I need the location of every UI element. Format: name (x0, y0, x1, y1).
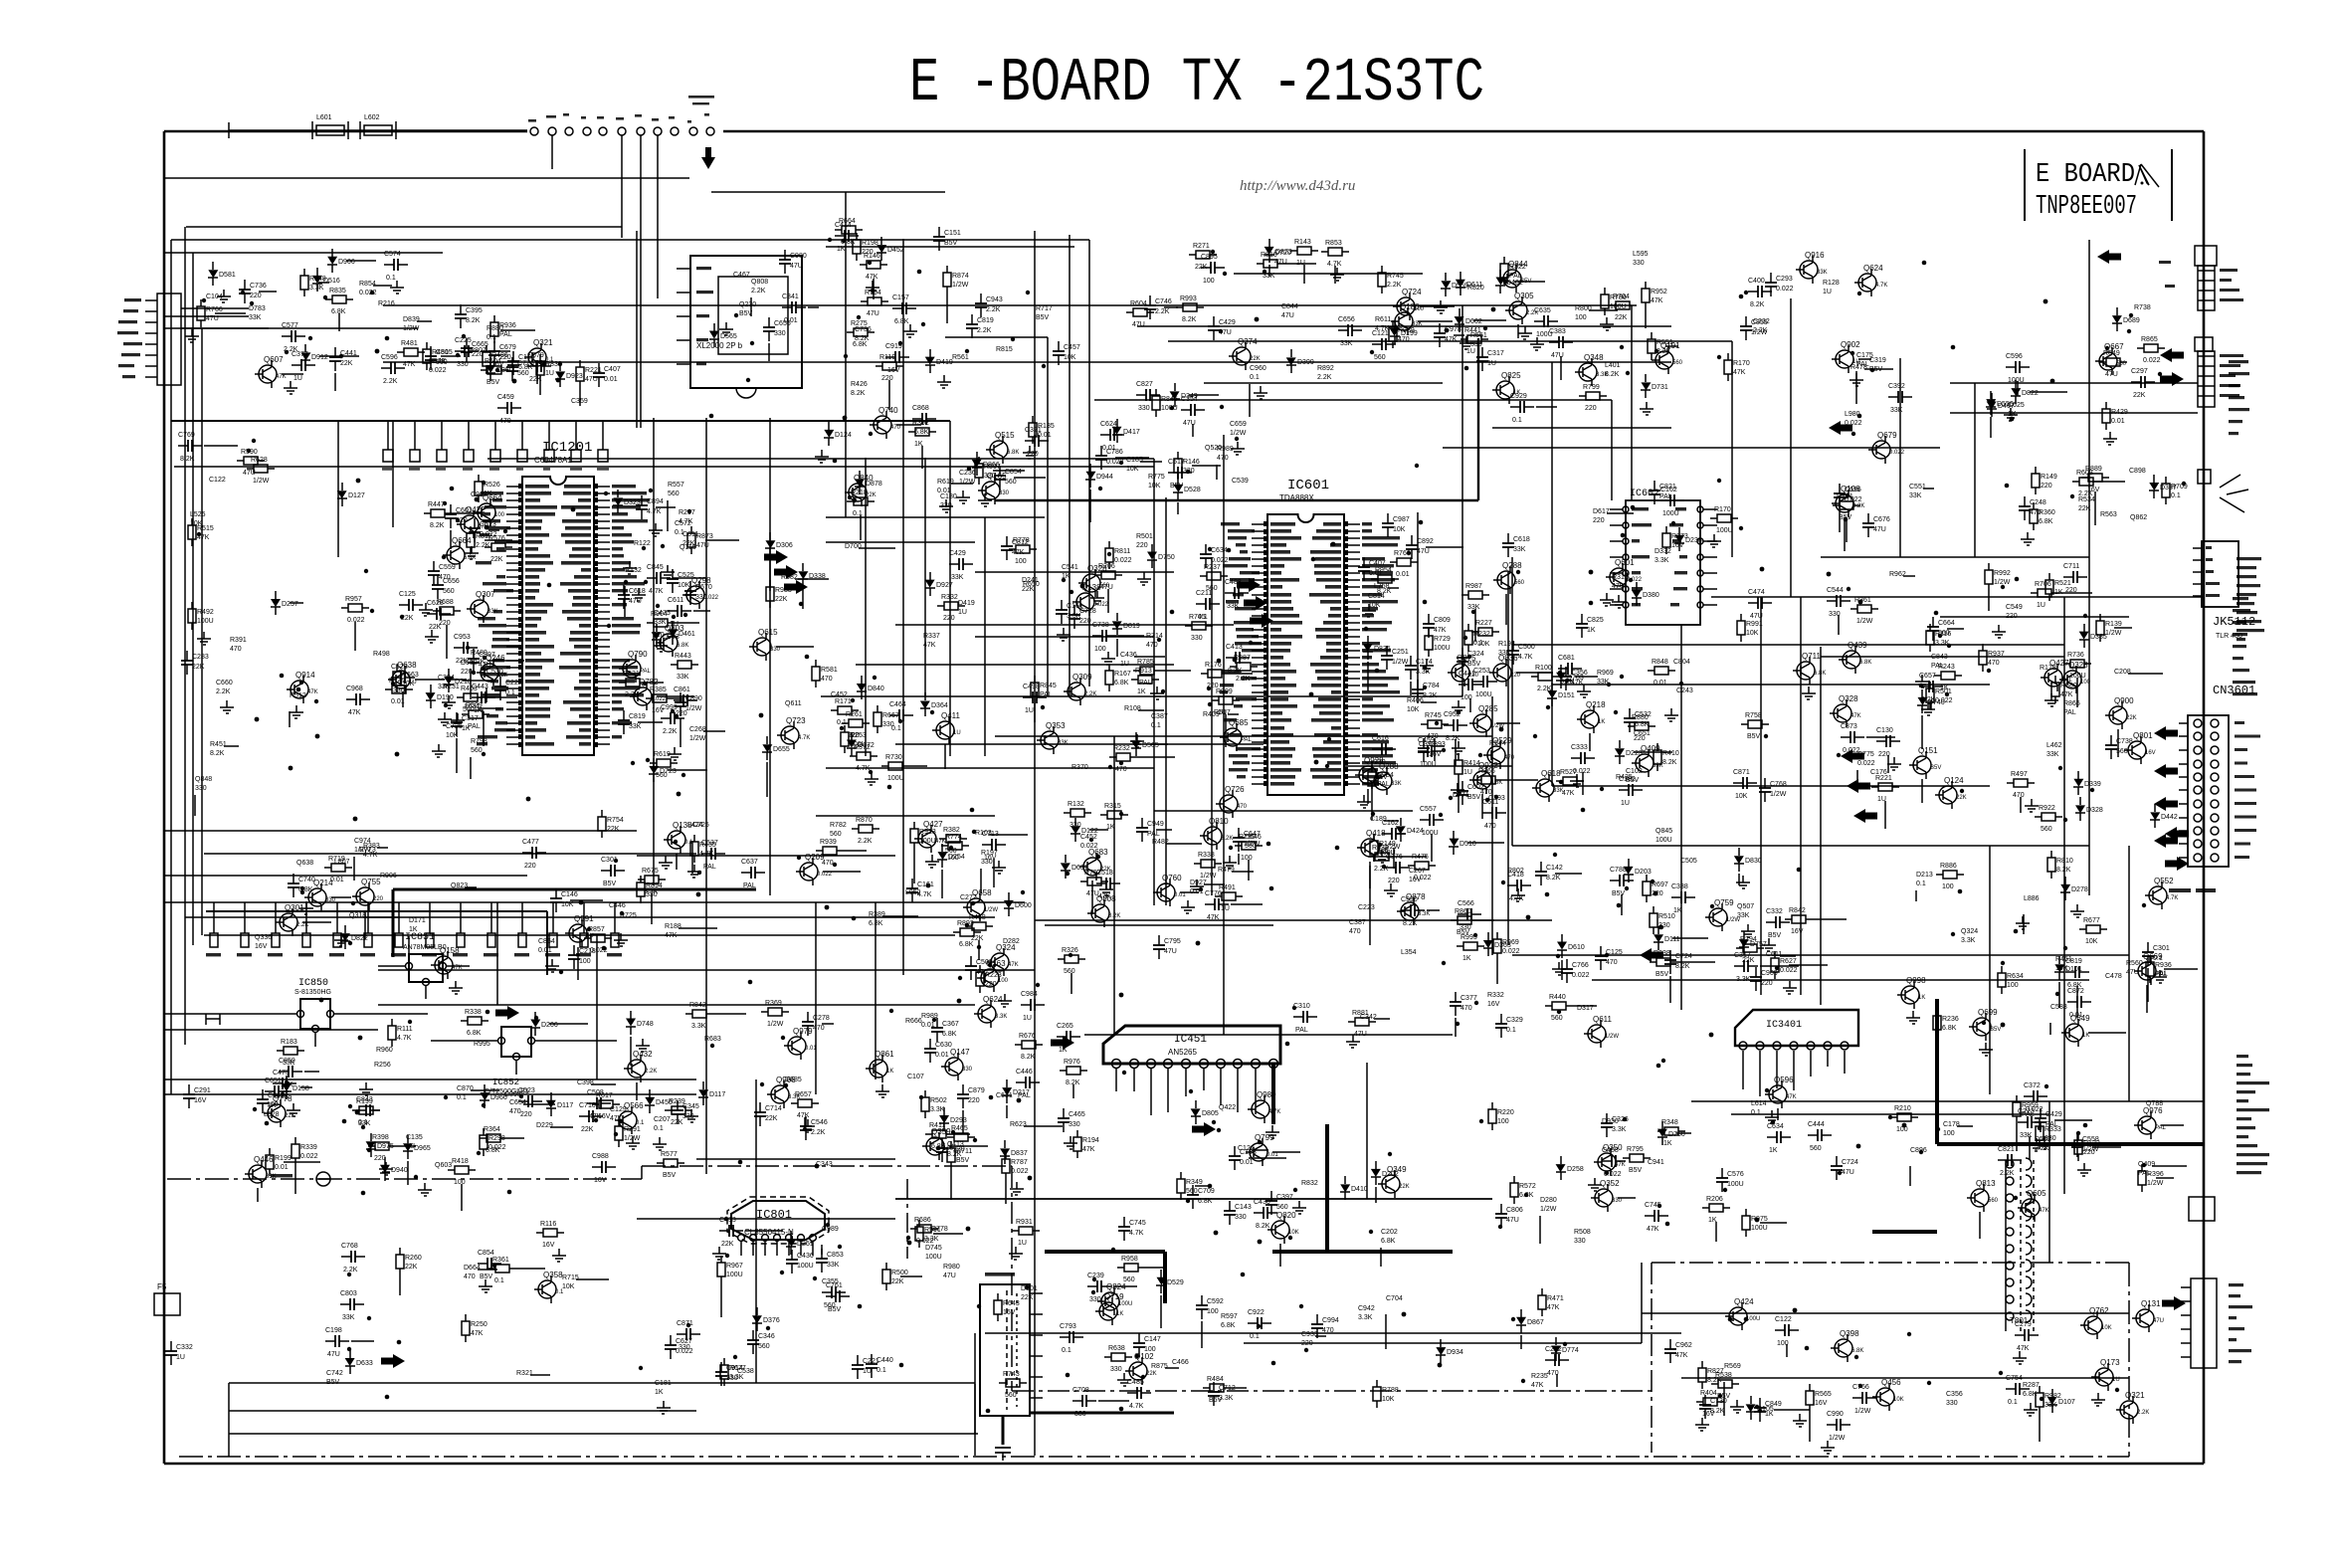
svg-text:C864: C864 (538, 938, 555, 945)
svg-text:D229: D229 (536, 1122, 553, 1129)
capacitor C746 (1096, 882, 1106, 884)
capacitor C651 (497, 407, 507, 409)
capacitor C175 (1168, 472, 1178, 474)
junction (475, 497, 480, 502)
wire (1458, 781, 1460, 813)
wire (171, 420, 950, 422)
resistor R862 (368, 1145, 375, 1147)
capacitor C758 (1507, 533, 1509, 543)
diode D902 (1560, 1156, 1562, 1164)
junction (339, 354, 343, 358)
wire (2156, 1177, 2174, 1179)
svg-text:100: 100 (2007, 982, 2019, 989)
svg-text:3.3K: 3.3K (1612, 1126, 1627, 1133)
capacitor C524 (282, 335, 292, 337)
junction (395, 752, 400, 757)
svg-text:C400: C400 (1748, 278, 1765, 285)
svg-text:0.022: 0.022 (429, 367, 447, 374)
wire (1887, 755, 1889, 773)
transistor Q515 (990, 441, 1008, 459)
capacitor C885 (573, 945, 575, 955)
resistor R284 (1451, 919, 1458, 921)
diode D884 (1738, 848, 1740, 856)
svg-text:R406: R406 (1407, 697, 1424, 704)
svg-text:R271: R271 (1193, 243, 1210, 250)
svg-text:Q755: Q755 (361, 878, 381, 886)
svg-text:C708: C708 (1072, 1387, 1089, 1394)
junction (748, 980, 753, 985)
svg-text:R361: R361 (1854, 597, 1871, 604)
svg-text:R287: R287 (2023, 1382, 2040, 1389)
junction (1589, 570, 1594, 575)
wire (1621, 894, 1623, 915)
transistor Q411 (936, 721, 954, 739)
svg-text:C974: C974 (354, 838, 371, 845)
chassis dash-dot line (1651, 1263, 1653, 1453)
diode D340 (1089, 464, 1091, 472)
svg-text:22K: 22K (866, 492, 876, 498)
ground (424, 1183, 426, 1190)
svg-text:Q861: Q861 (875, 1050, 894, 1059)
resistor R568 (671, 664, 678, 666)
pin 41 (594, 729, 610, 731)
wire (1140, 461, 1162, 463)
transistor Q124 (1939, 786, 1957, 804)
IC IC601 (1267, 514, 1344, 795)
resistor R347 (488, 1268, 495, 1270)
svg-text:R287: R287 (1234, 655, 1251, 662)
svg-text:560: 560 (1005, 479, 1017, 486)
transistor Q165 (982, 482, 1000, 499)
capacitor C543 (1482, 812, 1492, 814)
signal arrow (1829, 421, 1852, 435)
pin 40 (1344, 776, 1360, 778)
svg-text:C819: C819 (2065, 958, 2082, 965)
junction (1025, 1285, 1030, 1290)
capacitor C190 (929, 1039, 931, 1049)
fuse F801 (154, 1293, 180, 1315)
wire (888, 380, 890, 410)
wire (1502, 779, 1538, 781)
svg-text:C107: C107 (907, 1074, 924, 1080)
wire (1477, 338, 1479, 500)
svg-text:Q825: Q825 (1501, 371, 1521, 380)
svg-text:R995: R995 (474, 1041, 490, 1048)
svg-text:R188: R188 (665, 923, 681, 930)
pin 33 (1252, 748, 1267, 750)
IC IC2002 (690, 256, 802, 388)
capacitor C414 (949, 563, 959, 565)
resistor R258 (723, 1358, 725, 1365)
pin 1 (1623, 506, 1629, 512)
svg-text:6.8K: 6.8K (853, 341, 868, 348)
svg-text:C161: C161 (917, 882, 934, 888)
pin 32 (1252, 741, 1267, 743)
wire (1618, 1197, 1636, 1199)
wire (933, 1233, 963, 1235)
ground (191, 329, 193, 336)
wire (1334, 266, 1336, 284)
resistor R814 (2016, 1095, 2018, 1102)
junction (1119, 993, 1124, 998)
svg-text:C185: C185 (1126, 457, 1143, 464)
svg-text:R657: R657 (795, 1091, 812, 1098)
wire (383, 304, 1632, 306)
wire (2029, 1136, 2031, 1160)
svg-text:100: 100 (1497, 1118, 1509, 1125)
resistor R350 (1934, 675, 1941, 677)
capacitor C962 (473, 649, 475, 659)
svg-text:PAL: PAL (1377, 781, 1390, 788)
wire (1367, 662, 1369, 691)
wire (1561, 960, 1563, 980)
ground (1827, 1441, 1829, 1448)
wire (1930, 700, 1932, 710)
wire (795, 578, 829, 580)
capacitor C758 (356, 1109, 366, 1111)
pin 41 (1344, 769, 1360, 771)
ground (1016, 1182, 1018, 1189)
connector CN3601 (2188, 715, 2229, 867)
pin 52 (1344, 691, 1360, 693)
pin 72 (1344, 551, 1360, 553)
wire (1669, 976, 1671, 1003)
svg-text:22K: 22K (1742, 957, 1755, 964)
wire (215, 312, 246, 314)
svg-text:PAL: PAL (640, 669, 652, 675)
svg-text:1U: 1U (2037, 602, 2045, 609)
junction (385, 1395, 390, 1400)
wire (487, 660, 524, 662)
svg-text:D190: D190 (437, 694, 454, 701)
wire (1820, 647, 1822, 1005)
capacitor C769 (1141, 818, 1143, 828)
wire (821, 1245, 823, 1255)
diode D520 (1453, 831, 1455, 839)
svg-text:R100: R100 (1535, 665, 1552, 672)
junction (1631, 505, 1636, 510)
junction (1617, 903, 1622, 908)
svg-text:1K: 1K (1940, 685, 1949, 691)
svg-text:0.1: 0.1 (837, 719, 847, 726)
svg-text:Q685: Q685 (1229, 718, 1249, 727)
resistor stub row (387, 421, 389, 450)
transistor Q605 (2022, 1199, 2040, 1217)
diode D296 (341, 483, 343, 490)
wire (1154, 810, 1413, 812)
svg-text:R677: R677 (2083, 917, 2100, 924)
pin 7 (1841, 1042, 1849, 1050)
svg-text:C711: C711 (2063, 563, 2079, 570)
svg-text:22K: 22K (529, 376, 542, 383)
resistor R700 (657, 1162, 664, 1164)
wire (1417, 512, 1419, 696)
capacitor C192 (1770, 273, 1772, 283)
junction (1717, 479, 1721, 483)
ground (663, 1401, 665, 1408)
svg-text:100: 100 (1094, 646, 1106, 653)
junction (1621, 533, 1626, 538)
diode D788 (1151, 544, 1153, 552)
wire (1160, 1295, 1162, 1328)
resistor R895 (1428, 629, 1430, 636)
wire (1156, 829, 1172, 831)
svg-text:47K: 47K (2017, 1345, 2030, 1352)
transistor Q321 (528, 348, 546, 366)
junction (289, 766, 293, 771)
wire (703, 730, 725, 732)
svg-text:D923: D923 (566, 373, 583, 380)
transistor Q932 (1473, 771, 1491, 789)
junction (397, 1340, 402, 1345)
wire (1809, 1412, 1811, 1442)
svg-text:PAL: PAL (2063, 709, 2076, 716)
wire (882, 915, 918, 917)
capacitor C325 (450, 504, 452, 514)
svg-text:R774: R774 (945, 834, 962, 841)
capacitor C907 (292, 874, 294, 883)
capacitor C567 (2040, 1108, 2042, 1118)
pin 62 (594, 583, 610, 585)
wire (1134, 656, 1165, 658)
svg-text:10K: 10K (1893, 1397, 1904, 1403)
capacitor C469 (1254, 1212, 1264, 1214)
wire (551, 135, 553, 169)
capacitor C662 (701, 853, 711, 855)
transistor Q352 (1595, 1189, 1613, 1207)
wire (1950, 412, 2198, 414)
wire (2146, 985, 2148, 1013)
capacitor C441 (741, 872, 751, 874)
svg-text:1/2W: 1/2W (952, 282, 969, 289)
diode D483 (1344, 1176, 1346, 1184)
ground (438, 744, 440, 751)
resistor R532 (2033, 502, 2035, 509)
svg-text:2.2K: 2.2K (1317, 374, 1332, 381)
pin 46 (1344, 734, 1360, 736)
wire (941, 870, 943, 898)
svg-text:47U: 47U (1551, 352, 1564, 359)
capacitor C458 (752, 1330, 754, 1340)
diode D194 (1991, 393, 1993, 401)
wire (1789, 964, 1828, 966)
svg-text:D385: D385 (2090, 634, 2107, 641)
pin 22 (506, 632, 522, 634)
svg-text:8.2K: 8.2K (1221, 836, 1233, 842)
wire (1672, 937, 1708, 939)
svg-text:22K: 22K (1022, 586, 1035, 593)
diode D644 (1065, 855, 1067, 863)
svg-text:R389: R389 (869, 911, 885, 918)
wire (1137, 756, 1175, 758)
junction (602, 946, 607, 951)
svg-text:4.7K: 4.7K (649, 588, 664, 595)
svg-text:R952: R952 (1651, 289, 1667, 295)
ground (1458, 741, 1460, 748)
wire (1014, 477, 1046, 479)
pin 69 (594, 534, 610, 536)
junction (1526, 915, 1531, 920)
speaker symbol (2220, 475, 2240, 488)
resistor R998 (720, 1256, 722, 1263)
svg-text:L601: L601 (316, 114, 332, 121)
junction (696, 892, 701, 897)
wire (1899, 358, 1901, 557)
wire (164, 1093, 696, 1095)
svg-text:PAL: PAL (1040, 691, 1053, 698)
pin 23 (506, 639, 522, 641)
wire (170, 240, 172, 1094)
svg-text:R619: R619 (937, 479, 954, 486)
svg-text:47K: 47K (1651, 297, 1663, 304)
IC IC3401 (1735, 1010, 1858, 1046)
capacitor C910 (1386, 646, 1388, 656)
resistor R722 (1929, 682, 1931, 688)
resistor R115 (856, 233, 858, 240)
svg-text:2.2K: 2.2K (811, 1129, 826, 1136)
svg-text:0.022: 0.022 (1935, 697, 1953, 704)
transistor Q875 (1452, 664, 1469, 682)
pin 74 (1344, 537, 1360, 539)
wire (909, 765, 927, 767)
svg-text:R835: R835 (329, 288, 346, 294)
wire (488, 529, 499, 531)
wire (1711, 596, 2204, 598)
wire (282, 373, 303, 375)
wire (637, 855, 895, 857)
wire (769, 558, 771, 591)
svg-text:1/2W: 1/2W (1856, 618, 1873, 625)
pin 10 (1252, 586, 1267, 588)
wire (668, 769, 707, 771)
svg-text:100U: 100U (1420, 761, 1437, 768)
wire (1369, 862, 1371, 888)
resistor R970 (584, 937, 591, 939)
svg-text:C978: C978 (1445, 326, 1461, 333)
wire (1071, 973, 1072, 994)
ground (718, 1247, 720, 1254)
wire (769, 418, 771, 895)
resistor R738 (1471, 631, 1478, 633)
wire (1284, 263, 1316, 265)
pin 43 (1344, 755, 1360, 757)
capacitor C879 (1226, 657, 1236, 659)
svg-text:10K: 10K (678, 582, 690, 589)
svg-text:R766: R766 (206, 306, 223, 313)
svg-text:C879: C879 (968, 1087, 985, 1094)
wire (1520, 1335, 1522, 1349)
svg-text:1/2W: 1/2W (1200, 873, 1217, 880)
svg-text:6.8K: 6.8K (518, 364, 533, 371)
capacitor C260 (1755, 967, 1757, 977)
wire (713, 1013, 746, 1015)
resistor R663 (2077, 1133, 2079, 1140)
svg-text:XL2000 2P b: XL2000 2P b (696, 341, 743, 350)
svg-text:C892: C892 (1417, 538, 1434, 545)
diode D718 (802, 563, 804, 571)
capacitor C888 (587, 1102, 597, 1104)
junction (957, 999, 962, 1004)
wire (229, 1410, 696, 1412)
capacitor C324 (970, 956, 972, 966)
svg-text:1K: 1K (886, 1069, 893, 1075)
capacitor C846 (1671, 896, 1681, 898)
ground (1136, 734, 1138, 741)
resistor R489 (1890, 1116, 1897, 1118)
ground (444, 712, 446, 719)
capacitor C657 (478, 1263, 487, 1265)
resistor R443 (815, 660, 817, 667)
capacitor C406 (1455, 992, 1457, 1002)
capacitor C867 (399, 604, 409, 606)
svg-text:1U: 1U (1221, 905, 1230, 912)
capacitor C830 (1836, 1156, 1838, 1166)
svg-text:Q801: Q801 (2133, 731, 2153, 740)
capacitor C345 (499, 677, 501, 686)
capacitor C767 (1439, 323, 1441, 333)
svg-text:C870: C870 (457, 1085, 474, 1092)
resistor R667 (816, 850, 823, 852)
svg-text:Q411: Q411 (941, 711, 961, 720)
junction (2083, 1123, 2088, 1128)
pin 45 (594, 701, 610, 703)
wire (1195, 1185, 1211, 1187)
capacitor C890 (1100, 434, 1110, 436)
svg-text:R873: R873 (696, 533, 713, 540)
wire (896, 424, 921, 426)
wire (1473, 319, 1506, 321)
capacitor C352 (1759, 1398, 1761, 1408)
resistor R275 (1376, 1380, 1378, 1387)
wire (630, 1037, 632, 1066)
svg-text:Q307: Q307 (476, 590, 495, 599)
transistor Q601 (1610, 568, 1628, 586)
wire (1396, 856, 1427, 858)
diode D464 (859, 471, 861, 479)
svg-text:C844: C844 (1281, 303, 1298, 310)
wire (924, 458, 926, 696)
svg-text:Q131: Q131 (2141, 1299, 2161, 1308)
svg-text:R631: R631 (623, 671, 640, 678)
resistor R415 (1200, 575, 1207, 577)
diode D657 (2079, 797, 2081, 805)
capacitor C141 (1549, 341, 1559, 343)
wire (206, 910, 547, 912)
wire (1094, 399, 1612, 401)
wire (1677, 961, 1715, 963)
svg-text:560: 560 (1064, 968, 1075, 975)
connector P601 pin circles (530, 127, 538, 135)
signal arrow (2160, 348, 2184, 362)
svg-text:R788: R788 (1382, 1387, 1399, 1394)
pin 67 (1344, 586, 1360, 588)
wire (1455, 739, 1457, 766)
wire (2076, 986, 2078, 1018)
test point TP3601 (2198, 470, 2211, 484)
resistor R713 (2007, 782, 2014, 784)
wire (859, 547, 895, 549)
wire (691, 841, 693, 874)
wire (164, 1078, 696, 1080)
junction (1491, 307, 1496, 312)
wire (470, 757, 472, 779)
svg-text:1/2W: 1/2W (1244, 841, 1261, 848)
capacitor C435 (1401, 909, 1411, 911)
svg-text:2.2K: 2.2K (2000, 1170, 2015, 1177)
svg-text:C104: C104 (206, 294, 223, 300)
svg-text:AN5265: AN5265 (1168, 1048, 1197, 1057)
label text (2159, 261, 2171, 264)
